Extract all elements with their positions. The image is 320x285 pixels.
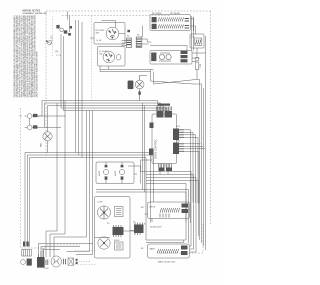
wire bundle row 2 [45,103,161,127]
element block terminals right [185,19,189,29]
EOC connector CN1 [173,129,179,141]
bake element hatch [157,249,179,254]
wire right harness v2 [201,84,203,243]
door lock switch dark box [37,248,45,268]
svg-text:BAKE 2500W 240V: BAKE 2500W 240V [158,261,176,264]
wire stair 1 [141,172,192,247]
svg-text:RR 1800W: RR 1800W [170,13,180,15]
wire bake feeds [146,223,186,243]
wire EOC fan 1 [184,130,191,223]
wire EOC fan 3 [184,135,196,203]
surface element block 2 rect [150,51,192,65]
cabinet outline dashed left lower [21,108,48,248]
neon lamp [21,259,32,266]
svg-text:BLWR: BLWR [114,240,120,242]
cabinet outline dashed top [46,10,211,12]
svg-text:P3: P3 [127,36,129,38]
plug P2 top blobs [23,242,29,247]
oven lamp 2 [119,162,124,184]
cabinet outline dashed top inner [62,15,170,17]
connector CN4 [134,225,144,234]
wire bundle2 row 3 [30,158,147,247]
contact bars 2 [64,259,66,265]
oven lamp box [96,162,134,184]
console outline dashed mid [91,16,93,101]
EOC box [152,114,177,164]
label L1 N L2 [52,35,62,56]
contact bars [46,260,48,266]
wire latch feeds [39,244,94,258]
wire element 2 stubs right [192,53,206,62]
connector P3 [122,30,132,48]
wire long pair 2 [96,192,186,240]
svg-text:LAMP: LAMP [114,170,117,176]
wire EOC fan 5 [184,144,205,149]
svg-text:RF 2400W: RF 2400W [152,13,162,15]
wire stair 2 [146,175,194,250]
wire EOC bottom leads [141,160,169,175]
svg-text:P4: P4 [137,35,139,37]
cabinet outline dashed right [210,11,212,224]
svg-text:SCHEMATIC SHOWN OFF: SCHEMATIC SHOWN OFF [22,12,47,15]
relay box K1 [190,34,204,48]
broil terminals [182,204,189,214]
element 2 coils [159,53,171,61]
wire connector links [95,223,145,238]
convection motor M2 [97,206,110,219]
wire console drop v1 [46,103,57,257]
svg-text:3400W 240V: 3400W 240V [150,227,162,229]
svg-text:BROIL: BROIL [150,207,157,209]
element 2 terminal left [151,53,156,62]
svg-text:L1 N: L1 N [52,35,54,40]
svg-text:SW: SW [96,33,99,35]
wire right harness v4 [205,36,207,250]
lock switch 2 [68,258,74,265]
bake box [148,244,190,258]
indicator light PL1 [20,114,67,119]
wire diagonal joint [151,70,202,85]
wire oven light feeds [139,76,147,101]
svg-text:LAMP: LAMP [98,170,101,176]
broil bottom pins [160,214,169,218]
cabinet outline dashed bottom segment [47,244,80,246]
connector CN3 [113,227,124,235]
notes text block [13,15,39,98]
wire bundle row 1 [42,101,158,117]
relay K1 contacts hatch [196,40,202,45]
svg-text:CN1: CN1 [176,126,180,128]
terminal block TB contacts [57,25,72,35]
wire stair 5 [146,184,186,223]
wire bundle row 5 [64,106,170,112]
svg-text:P6: P6 [107,223,109,225]
wire bundle2 row 1 [25,153,151,243]
wire SW1 feeds [90,21,125,39]
element coil hatch row 1 [158,18,184,22]
door switch blob [128,81,134,90]
wire bundle row 3 [48,106,164,132]
surface switch SW2 label [99,51,108,56]
EOC bottom blobs [159,168,173,172]
element block terminals left [152,17,157,29]
bake terminals [181,246,188,256]
EOC bottom pins [159,164,172,168]
element coil hatch row 2 [158,25,184,29]
fuse F2 right [195,48,199,79]
oven interior box [95,197,131,259]
wire P4 risers [142,26,151,45]
cabinet outline dashed right lower [158,224,203,253]
pilot lamp of SW2 [116,54,121,60]
wire right harness v3 [203,88,205,246]
surface switch SW1 label [96,30,106,42]
surface switch SW2 box [98,47,126,67]
surface switch SW2 rotary contacts [103,51,115,63]
wire stair 3 [146,178,196,253]
wire element block right drops [191,16,196,51]
svg-text:OVEN CONTROL: OVEN CONTROL [155,138,158,159]
wire right harness v1 [199,80,201,241]
oven light [135,80,144,89]
wire above element 2 [150,46,187,51]
svg-text:M: M [55,260,57,264]
wire lamp box right [128,166,141,184]
wire EOC fan 6 [184,151,199,203]
wire EOC fan 2 [184,132,193,202]
plug P2 body [22,250,32,257]
lower sensor box [115,242,124,250]
wire drop to pair v1 [142,103,144,192]
wire from top border to terminal block [68,11,70,32]
svg-text:P5: P5 [133,222,135,224]
oven sensor box [115,207,124,217]
svg-text:CIRCUIT 3 GROUND LOCAL RED GY: CIRCUIT 3 GROUND LOCAL RED GY BLACK SERV… [35,51,38,97]
wire mid harness v3 [76,111,93,255]
svg-text:TOD: TOD [200,63,202,68]
svg-text:SW: SW [99,54,102,56]
broil box [148,202,190,219]
svg-text:BAKE: BAKE [150,248,156,251]
lower motor M3 [98,237,110,249]
svg-text:WIRING NOTES: WIRING NOTES [22,10,40,13]
fuse F1 [46,41,52,45]
wire long pair 1 [96,190,189,244]
wire EOC fan 4 [184,137,198,203]
element 2 terminals right [181,51,188,63]
wire bundle2 row 2 [28,155,154,245]
wire SW2 outputs [100,66,154,72]
EOC top connector blobs [157,104,173,118]
wire mid harness v2 [67,111,90,252]
EOC left edge terminals [149,123,154,156]
wire stair 4 [146,181,199,237]
wire broil left stub [145,214,153,222]
wire mid harness v1 [54,111,87,258]
EOC top pins [157,107,172,111]
tiny marks near lock [76,259,78,264]
EOC connector CN2 [173,143,179,155]
wire supply drops [61,34,64,106]
notes heading [22,10,47,16]
surface switch SW1 rotary contacts [106,27,119,40]
latch motor M4 [51,256,61,267]
surface element block top rect [150,15,191,31]
broil element hatch [160,208,180,213]
svg-text:DLB: DLB [191,37,196,39]
surface switch SW1 box [94,23,125,45]
dashed box around latch motor [75,251,98,265]
cooling fan motor M1 [43,132,52,153]
cabinet outline dashed left [45,11,47,156]
svg-text:L1 H1: L1 H1 [96,40,102,42]
connector P4 [136,37,142,47]
element block caption [152,13,180,15]
wire main verticals from supply [76,20,83,158]
oven lamp 1 [103,162,108,184]
svg-text:FAN: FAN [40,143,43,147]
cabinet outline dashed left inner [52,16,54,56]
wire console drop v2 [50,101,65,258]
misc tiny labels [107,35,180,251]
dashed link right of lock [76,261,91,263]
svg-text:CN2: CN2 [176,141,180,143]
svg-text:CONV: CONV [97,201,103,203]
indicator light PL2 [25,118,62,129]
wire bundle row 4 [61,103,167,111]
